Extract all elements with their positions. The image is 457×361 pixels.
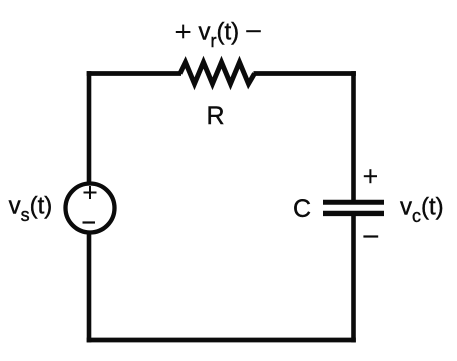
resistor R: [180, 62, 255, 84]
wire top-right lead: [254, 71, 356, 76]
wire right upper: [351, 71, 356, 202]
capacitor C bottom plate: [323, 211, 384, 216]
capacitor C top plate: [323, 200, 384, 205]
voltage source plus sign: [84, 186, 97, 199]
capacitor minus sign: [363, 235, 378, 237]
wire top-left lead: [87, 71, 181, 76]
label minus of vr: [246, 30, 261, 32]
svg-text:C: C: [293, 195, 311, 223]
wire left lower: [87, 234, 92, 343]
svg-text:vc(t): vc(t): [400, 194, 444, 227]
wire left upper: [87, 71, 92, 183]
wire bottom: [87, 338, 356, 343]
label plus of vr: [176, 25, 191, 39]
svg-text:R: R: [207, 102, 225, 130]
wire right lower: [351, 213, 356, 342]
voltage source minus sign: [83, 221, 96, 223]
svg-text:vs(t): vs(t): [9, 193, 53, 226]
voltage source VS circle: [66, 184, 115, 233]
capacitor plus sign: [364, 169, 377, 183]
svg-text:vr(t): vr(t): [199, 19, 240, 52]
